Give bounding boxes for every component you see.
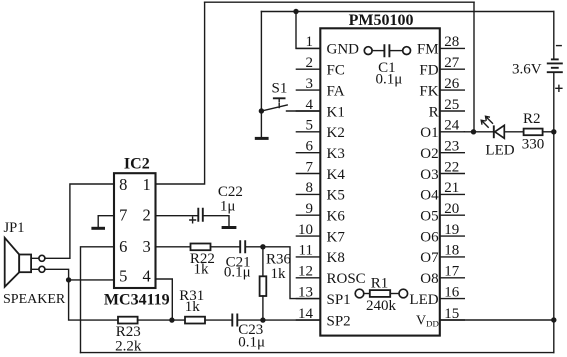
wire: IC2 pin 3 to R22 <box>156 246 191 248</box>
svg-text:K3: K3 <box>327 146 345 162</box>
wire: speaker top terminal to IC2 pin 8 <box>45 184 114 258</box>
wire: junction down to R23 row <box>69 280 118 320</box>
svg-text:FK: FK <box>419 83 438 99</box>
wire: R22 to C21 <box>211 246 240 248</box>
ground (below S1) <box>255 137 269 140</box>
resistor R22 1k <box>190 244 215 278</box>
svg-text:11: 11 <box>299 243 313 259</box>
svg-text:26: 26 <box>444 76 460 92</box>
svg-text:R2: R2 <box>523 111 541 127</box>
PM50100 pin 17 O8 <box>420 264 464 288</box>
LED D1 <box>481 116 515 158</box>
op-amp / IC U1 PM50100 body <box>320 28 440 335</box>
svg-text:SP2: SP2 <box>327 313 351 329</box>
svg-text:19: 19 <box>444 222 459 238</box>
PM50100 pin 3 FA <box>296 76 344 100</box>
svg-text:5: 5 <box>306 118 314 134</box>
svg-text:K7: K7 <box>327 229 346 245</box>
svg-text:K2: K2 <box>327 125 345 141</box>
op-amp IC2 MC34119 body <box>114 173 156 288</box>
svg-text:8: 8 <box>306 180 314 196</box>
PM50100 pin 28 FM <box>417 34 464 58</box>
svg-text:23: 23 <box>444 139 459 155</box>
PM50100 pin 21 O4 <box>420 180 464 204</box>
svg-text:24: 24 <box>444 118 460 134</box>
PM50100 pin 23 O2 <box>420 139 464 163</box>
svg-text:O3: O3 <box>420 167 438 183</box>
IC2 pin 6 (left) and pin 3 (right) numbers <box>119 237 151 256</box>
svg-text:0.1μ: 0.1μ <box>238 334 265 350</box>
IC2 pin 7 (left) and pin 2 (right) numbers <box>119 206 151 225</box>
node: speaker / pin5 / R23 junction <box>66 277 71 282</box>
svg-text:JP1: JP1 <box>4 220 25 236</box>
svg-text:K5: K5 <box>327 188 345 204</box>
svg-text:O6: O6 <box>420 229 439 245</box>
PM50100 pin 8 K5 <box>296 180 344 204</box>
wire: pin 24 to LED cathode <box>464 131 493 133</box>
wire: R2 to supply rail <box>543 131 554 133</box>
battery BT 3.6V <box>512 46 563 92</box>
svg-text:20: 20 <box>444 201 459 217</box>
node: pin4 / R23 / R31 junction <box>169 317 174 322</box>
PM50100 pin 22 O3 <box>420 159 464 183</box>
capacitor C1 0.1u (inside PM50100, GND to FM) <box>364 44 410 87</box>
svg-text:240k: 240k <box>366 298 397 314</box>
PM50100 pin 15 VDD <box>416 306 464 329</box>
svg-text:18: 18 <box>444 243 459 259</box>
svg-text:FM: FM <box>417 42 439 58</box>
svg-text:17: 17 <box>444 264 460 280</box>
wire: bottom ground rail <box>81 352 554 354</box>
svg-text:4: 4 <box>306 97 314 113</box>
svg-text:1: 1 <box>306 34 314 50</box>
wire: IC2 pin 7 to ground <box>98 216 114 227</box>
svg-text:PM50100: PM50100 <box>349 12 414 29</box>
PM50100 pin 27 FD <box>419 55 464 79</box>
node: VDD / supply rail junction <box>551 317 556 322</box>
resistor R2 330 <box>522 111 545 152</box>
capacitor C23 0.1u <box>232 314 265 351</box>
svg-text:4: 4 <box>142 267 150 286</box>
svg-text:9: 9 <box>306 201 314 217</box>
svg-text:28: 28 <box>444 34 459 50</box>
svg-text:5: 5 <box>119 267 127 286</box>
svg-text:0.1μ: 0.1μ <box>376 71 403 87</box>
PM50100 pin 12 ROSC <box>296 264 365 288</box>
PM50100 pin 20 O5 <box>420 201 464 225</box>
svg-text:R: R <box>429 104 439 120</box>
svg-text:1k: 1k <box>185 299 201 315</box>
svg-text:7: 7 <box>119 206 127 225</box>
svg-text:LED: LED <box>409 292 438 308</box>
wire: outer top rail <box>205 1 474 3</box>
svg-text:IC2: IC2 <box>124 156 150 173</box>
svg-text:2.2k: 2.2k <box>115 338 142 354</box>
svg-text:LED: LED <box>485 142 514 158</box>
resistor R31 1k <box>179 288 205 324</box>
wire: IC2 pin 6 down to bottom rail <box>81 247 115 353</box>
svg-text:25: 25 <box>444 97 459 113</box>
wire: PM50100 pin 15 VDD to supply rail <box>440 319 554 321</box>
svg-text:6: 6 <box>306 139 314 155</box>
PM50100 pin 19 O6 <box>420 222 464 246</box>
wire: C23 to PM50100 pin 14 SP2 <box>238 319 320 321</box>
svg-text:O5: O5 <box>420 209 438 225</box>
svg-text:FA: FA <box>327 83 345 99</box>
svg-text:K1: K1 <box>327 104 345 120</box>
wire: inner rail drop to S1 <box>260 12 262 112</box>
svg-text:GND: GND <box>327 42 360 58</box>
PM50100 pin 16 LED <box>409 284 464 308</box>
svg-text:K6: K6 <box>327 209 346 225</box>
node: R36 bottom junction <box>260 317 265 322</box>
svg-text:8: 8 <box>119 175 127 194</box>
svg-text:SP1: SP1 <box>327 292 351 308</box>
svg-text:O4: O4 <box>420 188 439 204</box>
node: pin 24 / top rail / LED junction <box>471 129 476 134</box>
svg-text:3: 3 <box>306 76 314 92</box>
svg-text:S1: S1 <box>272 81 288 97</box>
svg-text:7: 7 <box>306 159 314 175</box>
wire: junction to IC2 pin 5 <box>69 279 114 281</box>
svg-text:MC34119: MC34119 <box>104 292 170 309</box>
svg-text:22: 22 <box>444 159 459 175</box>
svg-text:12: 12 <box>298 264 313 280</box>
resistor R36 1k (vertical) <box>260 247 292 320</box>
PM50100 pin 10 K7 <box>296 222 345 246</box>
wire: R23 to R31 <box>138 319 185 321</box>
svg-text:K4: K4 <box>327 167 346 183</box>
PM50100 pin 25 R <box>429 97 465 121</box>
svg-text:3.6V: 3.6V <box>512 62 542 78</box>
svg-text:1μ: 1μ <box>220 198 236 214</box>
wire: IC2 pin 1 up to outer top rail <box>156 2 205 184</box>
svg-text:FD: FD <box>419 63 438 79</box>
IC2 pin 8 (left) and pin 1 (right) numbers <box>119 175 151 194</box>
wire: IC2 pin 4 down to R23/R31 node <box>156 279 173 320</box>
node: rail to GND pin junction <box>293 9 298 14</box>
wire: right supply rail (battery plus down to bottom rail) <box>553 73 555 353</box>
wire: R31 to C23 <box>205 319 231 321</box>
PM50100 pin 26 FK <box>419 76 464 100</box>
IC2 pin 5 (left) and pin 4 (right) numbers <box>119 267 151 286</box>
PM50100 pin 2 FC <box>296 55 344 79</box>
svg-text:O7: O7 <box>420 250 439 266</box>
speaker JP1 <box>3 220 66 307</box>
node: C21 / R36 top junction <box>260 244 265 249</box>
svg-text:ROSC: ROSC <box>327 271 366 287</box>
PM50100 pin 9 K6 <box>296 201 345 225</box>
PM50100 pin 7 K4 <box>296 159 345 183</box>
ground (IC2 pin 7) <box>91 227 105 230</box>
wire: C21 to SP1 jog <box>246 247 320 299</box>
svg-text:O2: O2 <box>420 146 438 162</box>
svg-text:27: 27 <box>444 55 460 71</box>
svg-text:O8: O8 <box>420 271 438 287</box>
PM50100 pin 24 O1 <box>420 118 464 142</box>
capacitor C22 1u (electrolytic) <box>190 184 243 223</box>
svg-text:330: 330 <box>522 137 545 153</box>
svg-text:16: 16 <box>444 284 460 300</box>
svg-text:R1: R1 <box>371 275 389 291</box>
svg-text:O1: O1 <box>420 125 438 141</box>
PM50100 pin 4 K1 <box>296 97 344 121</box>
wire: inner top rail (S1 to battery minus) <box>261 11 553 13</box>
PM50100 pin 14 SP2 <box>296 306 350 330</box>
svg-text:2: 2 <box>142 206 150 225</box>
node: R2 / supply rail junction <box>551 129 556 134</box>
PM50100 pin 1 GND <box>296 34 359 58</box>
svg-text:K8: K8 <box>327 250 345 266</box>
svg-text:3: 3 <box>142 237 150 256</box>
switch S1 <box>259 81 321 114</box>
wire: rail down to PM50100 pin 1 GND <box>296 12 320 49</box>
wire: inner rail down to battery <box>553 12 555 59</box>
svg-text:21: 21 <box>444 180 459 196</box>
svg-text:1k: 1k <box>271 266 287 282</box>
svg-text:6: 6 <box>119 237 127 256</box>
svg-text:0.1μ: 0.1μ <box>224 265 251 281</box>
svg-text:10: 10 <box>298 222 313 238</box>
svg-text:FC: FC <box>327 63 345 79</box>
PM50100 pin 5 K2 <box>296 118 344 142</box>
PM50100 pin 13 SP1 <box>296 284 350 308</box>
PM50100 pin 11 K8 <box>296 243 344 267</box>
wire: outer rail drop to LED node <box>473 2 475 132</box>
PM50100 pin 18 O7 <box>420 243 464 267</box>
svg-text:2: 2 <box>306 55 314 71</box>
resistor R23 2.2k <box>115 317 142 355</box>
wire: C22 to ground <box>204 216 229 226</box>
wire: S1 down to ground <box>260 111 262 137</box>
ground (C22) <box>222 226 237 229</box>
wire: speaker bottom terminal branch <box>45 269 69 280</box>
capacitor C21 0.1u <box>224 240 251 280</box>
wire: LED anode to R2 <box>504 131 523 133</box>
svg-text:1k: 1k <box>194 261 210 277</box>
svg-text:SPEAKER: SPEAKER <box>3 292 66 307</box>
svg-text:1: 1 <box>142 175 150 194</box>
wire: IC2 pin 2 to C22 <box>156 215 198 217</box>
PM50100 pin 6 K3 <box>296 139 344 163</box>
resistor R1 240k (inside PM50100, SP1 to LED) <box>355 275 407 313</box>
